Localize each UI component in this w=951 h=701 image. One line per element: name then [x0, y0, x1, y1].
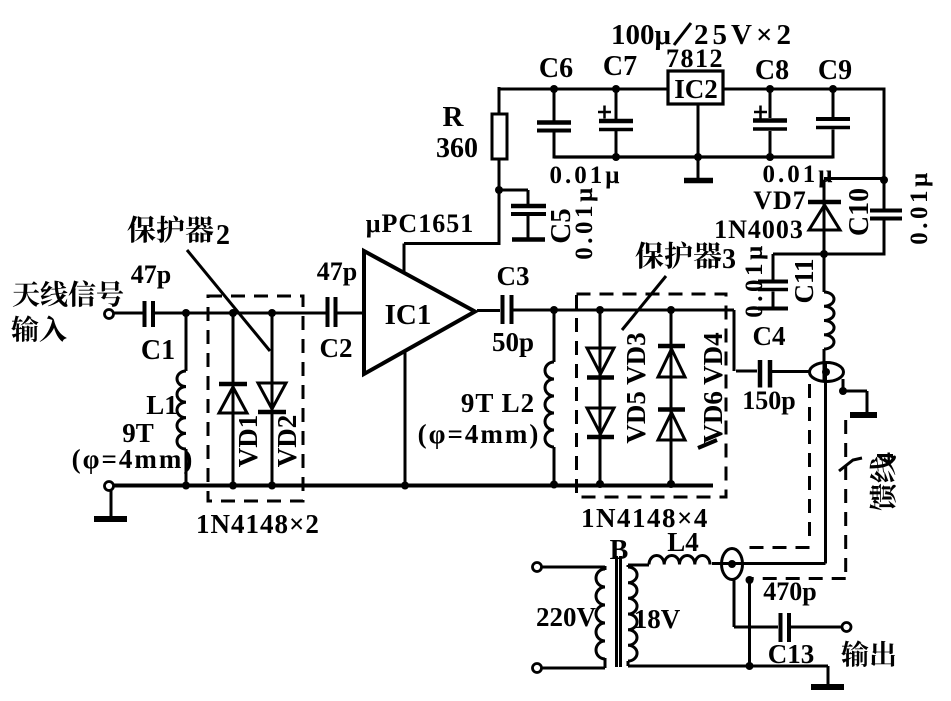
svg-text:C9: C9	[818, 55, 852, 86]
svg-text:C6: C6	[539, 53, 573, 84]
svg-text:(φ=4mm): (φ=4mm)	[72, 444, 195, 474]
svg-text:47p: 47p	[317, 257, 357, 286]
svg-text:C8: C8	[755, 55, 789, 86]
svg-text:150p: 150p	[742, 386, 795, 415]
svg-text:220V: 220V	[536, 602, 597, 632]
svg-text:C2: C2	[320, 333, 353, 363]
svg-text:470p: 470p	[763, 577, 816, 606]
svg-text:IC1: IC1	[385, 299, 432, 331]
svg-text:360: 360	[436, 133, 478, 164]
svg-text:C11: C11	[789, 258, 819, 303]
svg-text:C10: C10	[844, 188, 875, 236]
svg-text:1N4148×2: 1N4148×2	[196, 509, 320, 539]
svg-text:C4: C4	[753, 321, 786, 351]
svg-text:0.01μ: 0.01μ	[741, 242, 768, 317]
svg-text:IC2: IC2	[674, 74, 718, 104]
svg-text:VD6 VD4: VD6 VD4	[698, 332, 728, 443]
svg-text:C13: C13	[768, 639, 815, 669]
svg-text:50p: 50p	[492, 327, 534, 357]
svg-text:VD7: VD7	[753, 186, 807, 215]
svg-text:VD2: VD2	[272, 415, 302, 468]
svg-text:VD1: VD1	[233, 415, 263, 468]
svg-text:C1: C1	[141, 335, 175, 366]
svg-text:VD5 VD3: VD5 VD3	[621, 332, 651, 443]
svg-text:L1: L1	[146, 390, 178, 420]
svg-text:2: 2	[216, 220, 230, 251]
svg-text:9T L2: 9T L2	[461, 388, 535, 418]
svg-text:μPC1651: μPC1651	[366, 209, 474, 238]
svg-text:100μ: 100μ	[611, 19, 672, 51]
svg-text:R: R	[443, 101, 465, 133]
svg-text:4: 4	[873, 452, 899, 464]
svg-text:C3: C3	[497, 261, 530, 291]
svg-text:18V: 18V	[634, 604, 681, 634]
svg-text:(φ=4mm): (φ=4mm)	[418, 419, 541, 449]
svg-text:C7: C7	[603, 51, 637, 82]
svg-text:L4: L4	[667, 527, 699, 557]
svg-text:47p: 47p	[131, 260, 171, 289]
svg-text:0.01μ: 0.01μ	[763, 161, 836, 188]
svg-text:B: B	[610, 535, 629, 566]
svg-text:0.01μ: 0.01μ	[571, 184, 598, 259]
svg-text:7812: 7812	[666, 44, 724, 73]
svg-text:3: 3	[722, 244, 736, 275]
svg-text:1N4003: 1N4003	[714, 215, 804, 244]
svg-text:0.01μ: 0.01μ	[906, 169, 933, 244]
